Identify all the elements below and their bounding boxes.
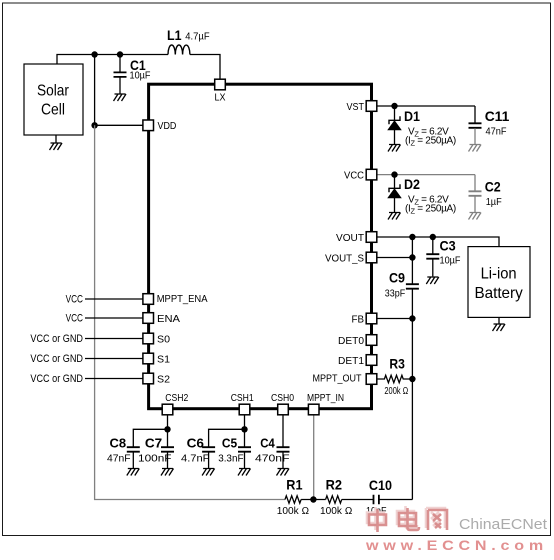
junction C3: [430, 234, 436, 240]
wire CSH0 drop: [282, 415, 284, 447]
wire battery to ground: [498, 317, 500, 323]
pin DET0: [338, 335, 377, 347]
capacitor C5: [218, 435, 251, 468]
Li-ion Battery block: [468, 247, 530, 318]
svg-text:VOUT: VOUT: [336, 232, 365, 244]
wire MPPT_IN drop (gray): [313, 415, 315, 500]
svg-text:VCC or GND: VCC or GND: [30, 333, 83, 345]
svg-text:33pF: 33pF: [385, 288, 405, 299]
pin S2: [143, 373, 170, 385]
wire R2 to C10: [342, 499, 373, 501]
node junction C1: [117, 51, 123, 57]
wire VST row: [377, 105, 475, 107]
wire MPPT_ENA stub: [85, 298, 143, 300]
svg-text:S0: S0: [157, 333, 170, 345]
ground (D2): [388, 213, 401, 220]
svg-text:C4: C4: [260, 435, 275, 450]
ground (C2): [469, 213, 482, 220]
svg-text:C2: C2: [485, 179, 501, 195]
wire VOUT row to battery: [377, 237, 499, 247]
resistor R3: [377, 356, 412, 398]
pin VST: [347, 101, 377, 113]
wire rail C9 to FB to R3 to bottom: [411, 289, 413, 499]
svg-text:C11: C11: [485, 108, 510, 124]
resistor R2: [320, 477, 353, 518]
svg-text:VCC: VCC: [344, 169, 364, 181]
svg-text:VCC or GND: VCC or GND: [30, 373, 83, 385]
svg-text:S1: S1: [157, 353, 170, 365]
junction D1: [391, 103, 397, 109]
wire CSH2 drop: [167, 415, 169, 447]
svg-text:CSH0: CSH0: [271, 392, 294, 404]
ground (D1): [388, 145, 401, 152]
svg-text:C5: C5: [222, 435, 237, 450]
svg-text:L1: L1: [167, 27, 182, 43]
pin VDD: [143, 120, 177, 132]
svg-text:4.7nF: 4.7nF: [181, 453, 210, 464]
wire C10 to rail: [380, 499, 413, 501]
junction CSH1: [241, 426, 247, 432]
pin VOUT: [336, 232, 377, 244]
svg-text:C6: C6: [187, 435, 204, 450]
svg-text:470nF: 470nF: [255, 453, 290, 464]
capacitor C10: [366, 477, 392, 517]
svg-text:C9: C9: [389, 270, 405, 286]
wire S1 stub: [85, 358, 143, 360]
svg-text:Li-ion: Li-ion: [481, 265, 517, 282]
wire L1 left lead: [120, 54, 168, 56]
junction CSH2: [164, 426, 170, 432]
svg-text:DET0: DET0: [338, 335, 364, 347]
junction D2: [391, 171, 397, 177]
wire MPPT sense rail (gray): [95, 125, 285, 499]
node junction on VIN at rail: [91, 51, 97, 57]
wire CSH2 branch to C8: [133, 429, 167, 446]
capacitor C7: [138, 435, 174, 468]
ground (solar cell): [50, 135, 63, 150]
capacitor C3: [426, 237, 460, 276]
capacitor C1: [114, 55, 151, 94]
junction MPPT_IN: [310, 496, 316, 502]
wire VDD black segment of rail: [94, 55, 96, 126]
svg-text:MPPT_ENA: MPPT_ENA: [157, 293, 208, 305]
svg-text:C8: C8: [110, 435, 127, 450]
watermark 中: [367, 507, 386, 532]
pin FB: [352, 313, 377, 325]
svg-text:C7: C7: [145, 435, 162, 450]
pin VCC: [344, 169, 377, 181]
wire solar cell top to node VIN: [57, 55, 120, 65]
Solar Cell block: [24, 64, 83, 135]
svg-text:VST: VST: [347, 101, 365, 113]
capacitor C6: [181, 435, 215, 468]
svg-text:VCC: VCC: [66, 294, 83, 306]
pin MPPT_ENA: [143, 293, 208, 305]
ground (C3): [426, 277, 439, 284]
junction FB: [409, 315, 415, 321]
svg-text:4.7µF: 4.7µF: [185, 32, 209, 43]
svg-text:R3: R3: [389, 356, 405, 372]
svg-text:C3: C3: [440, 237, 456, 253]
svg-text:www.ECCN.com: www.ECCN.com: [365, 538, 548, 553]
watermark 网: [426, 508, 447, 530]
pin MPPT_OUT: [313, 372, 377, 384]
svg-text:MPPT_IN: MPPT_IN: [307, 392, 344, 404]
wire VCC row (gray): [377, 174, 475, 176]
wire S2 stub: [85, 378, 143, 380]
svg-text:R2: R2: [326, 477, 343, 493]
svg-text:FB: FB: [352, 313, 365, 325]
svg-text:CSH1: CSH1: [231, 392, 254, 404]
ground (C4): [277, 469, 290, 476]
svg-text:Cell: Cell: [41, 102, 65, 119]
svg-text:S2: S2: [157, 373, 170, 385]
wire L1 to pin LX: [190, 55, 220, 80]
svg-text:LX: LX: [215, 92, 226, 104]
pin CSH1: [231, 392, 254, 415]
wire CSH1 branch to C6: [209, 429, 245, 446]
wire VDD to pin: [95, 124, 143, 126]
pin CSH2: [162, 392, 188, 415]
svg-text:MPPT_OUT: MPPT_OUT: [313, 372, 363, 384]
svg-text:100k Ω: 100k Ω: [320, 506, 353, 517]
resistor R1: [277, 477, 310, 518]
svg-text:VCC: VCC: [66, 313, 83, 325]
ground (C1): [114, 94, 127, 101]
ground (C7): [161, 469, 174, 476]
wire CSH1 drop: [244, 415, 246, 447]
wire FB row: [377, 318, 412, 320]
svg-text:100nF: 100nF: [138, 453, 172, 464]
svg-text:47nF: 47nF: [107, 453, 131, 464]
svg-text:D1: D1: [404, 108, 420, 124]
wire ENA stub: [85, 317, 143, 319]
capacitor C9: [385, 270, 419, 300]
wire S0 stub: [85, 338, 143, 340]
svg-text:CSH2: CSH2: [165, 392, 188, 404]
svg-text:Battery: Battery: [474, 285, 522, 302]
svg-text:C10: C10: [369, 477, 392, 493]
zener diode D1: [388, 106, 456, 148]
svg-text:DET1: DET1: [338, 355, 364, 367]
inductor L1: [167, 27, 210, 55]
watermark 电: [397, 506, 419, 530]
pin CSH0: [271, 392, 294, 415]
junction VOUT_S: [409, 254, 415, 260]
zener diode D2: [388, 175, 456, 216]
pin ENA: [143, 313, 180, 325]
svg-text:ENA: ENA: [157, 313, 180, 325]
pin S0: [143, 333, 170, 345]
wire rail VOUT to C9: [411, 237, 413, 284]
svg-text:Solar: Solar: [37, 82, 70, 99]
pin VOUT_S: [325, 252, 377, 264]
pin MPPT_IN: [307, 392, 344, 415]
svg-text:100k Ω: 100k Ω: [277, 506, 310, 517]
pin LX: [215, 79, 226, 103]
svg-text:10µF: 10µF: [130, 71, 151, 82]
junction VOUT rail: [409, 234, 415, 240]
capacitor C11: [469, 106, 510, 144]
capacitor C2: [469, 175, 502, 212]
ground (C8): [127, 469, 140, 476]
svg-text:47nF: 47nF: [486, 127, 507, 138]
IC U1 body: [149, 84, 372, 409]
svg-text:200k Ω: 200k Ω: [384, 386, 408, 397]
ground (C5): [238, 469, 251, 476]
ground (battery): [493, 324, 506, 331]
junction R3: [409, 376, 415, 382]
capacitor C4: [255, 435, 290, 468]
pin DET1: [338, 355, 377, 367]
ground (C11): [469, 145, 482, 152]
capacitor C8: [107, 435, 140, 468]
pin S1: [143, 353, 170, 365]
svg-text:D2: D2: [404, 176, 420, 192]
svg-text:VCC or GND: VCC or GND: [30, 353, 83, 365]
junction VDD node: [91, 122, 97, 128]
wire R1 to R2: [301, 499, 326, 501]
ground (C6): [202, 469, 215, 476]
svg-text:10µF: 10µF: [440, 255, 461, 266]
svg-text:R1: R1: [286, 477, 302, 493]
wire VOUT_S row: [377, 257, 412, 259]
svg-text:3.3nF: 3.3nF: [218, 453, 243, 464]
svg-text:VDD: VDD: [158, 120, 177, 132]
svg-text:1µF: 1µF: [486, 197, 502, 208]
svg-text:ChinaECNet: ChinaECNet: [459, 517, 547, 533]
svg-text:VOUT_S: VOUT_S: [325, 252, 364, 264]
